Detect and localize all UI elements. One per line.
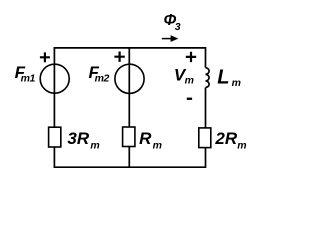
svg-text:m1: m1 [21,73,36,85]
svg-text:m: m [90,139,99,151]
svg-text:m: m [185,74,194,86]
plus sign F_m2 [114,52,124,62]
wire outer loop [54,48,205,167]
svg-text:m: m [237,139,246,151]
svg-text:L: L [217,67,229,89]
source F_m2 [115,64,144,93]
svg-text:m: m [153,139,162,151]
minus sign V_m [187,98,192,100]
svg-text:3: 3 [175,21,181,33]
flux arrow [162,38,172,40]
plus sign F_m1 [40,52,50,62]
svg-text:R: R [139,129,152,148]
plus sign V_m [186,52,196,62]
svg-text:m: m [232,77,241,89]
svg-text:3R: 3R [67,129,89,148]
source F_m1 [40,64,69,93]
svg-text:2R: 2R [214,129,237,148]
wire middle branch [128,48,130,167]
resistor 2R_m box [199,128,211,148]
inductor L_m coil [206,68,210,88]
resistor 3R_m box [49,127,61,147]
resistor R_m box [123,127,135,147]
svg-text:m2: m2 [95,73,110,85]
